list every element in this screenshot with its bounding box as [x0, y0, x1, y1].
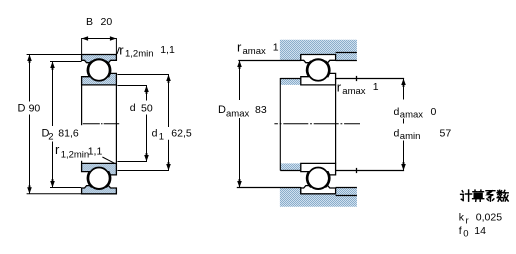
D extension line top [27, 54, 82, 56]
svg-text:81,6: 81,6 [58, 127, 79, 139]
bore silhouette left edge lower part [81, 161, 83, 164]
svg-text:1,2min: 1,2min [125, 49, 154, 60]
d arrow bottom [144, 153, 149, 162]
svg-text:k: k [459, 212, 465, 224]
B arrow left [82, 36, 89, 41]
svg-text:d: d [152, 127, 158, 139]
shaft left end edge [279, 78, 281, 171]
svg-text:83: 83 [255, 104, 267, 116]
B dimension extension line left [81, 38, 83, 54]
svg-text:amax: amax [226, 109, 249, 120]
svg-text:amax: amax [400, 110, 423, 121]
shaft shoulder bottom line left [280, 170, 301, 172]
da arrow top [401, 79, 406, 88]
svg-text:14: 14 [474, 225, 486, 237]
da dimension line [403, 79, 405, 100]
housing bottom block [280, 188, 357, 207]
housing bore line bottom-right [336, 195, 357, 197]
d dimension line bottom [117, 115, 146, 162]
bearing bottom half-section (blue, mirrored) [82, 163, 117, 193]
d1 dimension line bottom [117, 140, 168, 171]
svg-text:d: d [394, 128, 400, 140]
D2 arrow top [50, 62, 55, 71]
r1,2min top leader [117, 47, 119, 54]
housing shoulder line bottom-left [237, 187, 301, 189]
D2 dimension line [52, 62, 54, 127]
svg-text:20: 20 [101, 16, 113, 28]
D2 extension line top [50, 61, 82, 63]
d1 arrow top [166, 75, 171, 84]
break tick bottom [356, 168, 358, 173]
r1,2min bottom leader [102, 157, 114, 163]
B dimension extension line right [115, 38, 117, 54]
housing shoulder step vertical bottom [300, 187, 302, 194]
da arrow bottom [401, 162, 406, 171]
char 系 [486, 191, 495, 202]
svg-text:r: r [337, 80, 342, 95]
svg-text:amin: amin [400, 131, 421, 142]
svg-text:r: r [466, 215, 469, 226]
housing bore line top-right [336, 52, 357, 54]
char 计 [461, 190, 472, 201]
shaft shoulder top line (da) left [280, 78, 301, 80]
char 算 [473, 190, 484, 201]
D dimension line [29, 55, 31, 102]
svg-text:d: d [130, 102, 136, 114]
shaft shoulder silhouette bottom-right [336, 170, 405, 172]
Damax dimension line [239, 61, 241, 101]
svg-text:B: B [86, 16, 93, 28]
svg-text:0,025: 0,025 [476, 212, 502, 224]
svg-text:1,1: 1,1 [88, 145, 103, 157]
svg-text:62,5: 62,5 [171, 127, 192, 139]
svg-text:D: D [18, 103, 26, 115]
D arrow top [27, 55, 32, 64]
D extension line bottom [27, 193, 82, 195]
bore silhouette left edge [81, 85, 83, 125]
svg-text:90: 90 [29, 103, 41, 115]
shaft shoulder silhouette top-right [336, 78, 405, 80]
svg-text:D: D [218, 104, 226, 116]
centerline right figure [274, 123, 360, 125]
svg-text:2: 2 [48, 131, 53, 142]
svg-text:1: 1 [373, 81, 379, 93]
label 计算系数 (calculation factors, drawn as paths) [461, 190, 509, 201]
svg-text:d: d [394, 106, 400, 118]
d1 dimension line top [117, 75, 168, 128]
Damax arrow top [237, 61, 242, 70]
bearing bottom half-section (white, mirrored) [301, 163, 336, 193]
housing shoulder line top-left (Da) [238, 60, 300, 62]
break tick top [356, 76, 358, 81]
d dimension line top [117, 86, 146, 101]
svg-text:0: 0 [431, 106, 437, 118]
svg-text:r: r [55, 142, 60, 157]
B arrow right [110, 36, 117, 41]
housing shoulder step vertical top [300, 55, 302, 62]
svg-text:r: r [119, 43, 124, 58]
D arrow bottom [27, 185, 32, 194]
housing shoulder line bottom-right [336, 187, 357, 189]
D2 extension line bottom [50, 187, 81, 189]
bearing top half-section (white) [301, 55, 336, 85]
d1 arrow bottom [166, 162, 171, 171]
D2 arrow bottom [50, 179, 55, 188]
housing shoulder line top-right [336, 60, 357, 62]
svg-text:57: 57 [440, 128, 452, 140]
Damax arrow bottom [237, 179, 242, 188]
svg-text:1: 1 [273, 42, 279, 54]
svg-text:50: 50 [141, 102, 153, 114]
svg-text:1: 1 [159, 131, 164, 142]
bearing top half-section (blue) [82, 55, 117, 85]
svg-text:0: 0 [463, 229, 468, 240]
B dimension line [82, 38, 117, 40]
svg-text:1,1: 1,1 [160, 44, 175, 56]
svg-text:amax: amax [243, 46, 266, 57]
svg-text:r: r [237, 40, 242, 55]
shaft right end edge [335, 85, 337, 163]
svg-text:f: f [459, 225, 462, 237]
housing top block [280, 40, 357, 61]
svg-text:amax: amax [342, 86, 365, 97]
d arrow top [144, 86, 149, 95]
char 数 [497, 190, 508, 201]
svg-text:1,2min: 1,2min [61, 149, 90, 160]
bore silhouette right edge [115, 85, 117, 163]
shaft shoulder bottom-left [280, 163, 301, 170]
centerline left figure [83, 123, 119, 125]
shaft shoulder top-left [280, 79, 301, 85]
